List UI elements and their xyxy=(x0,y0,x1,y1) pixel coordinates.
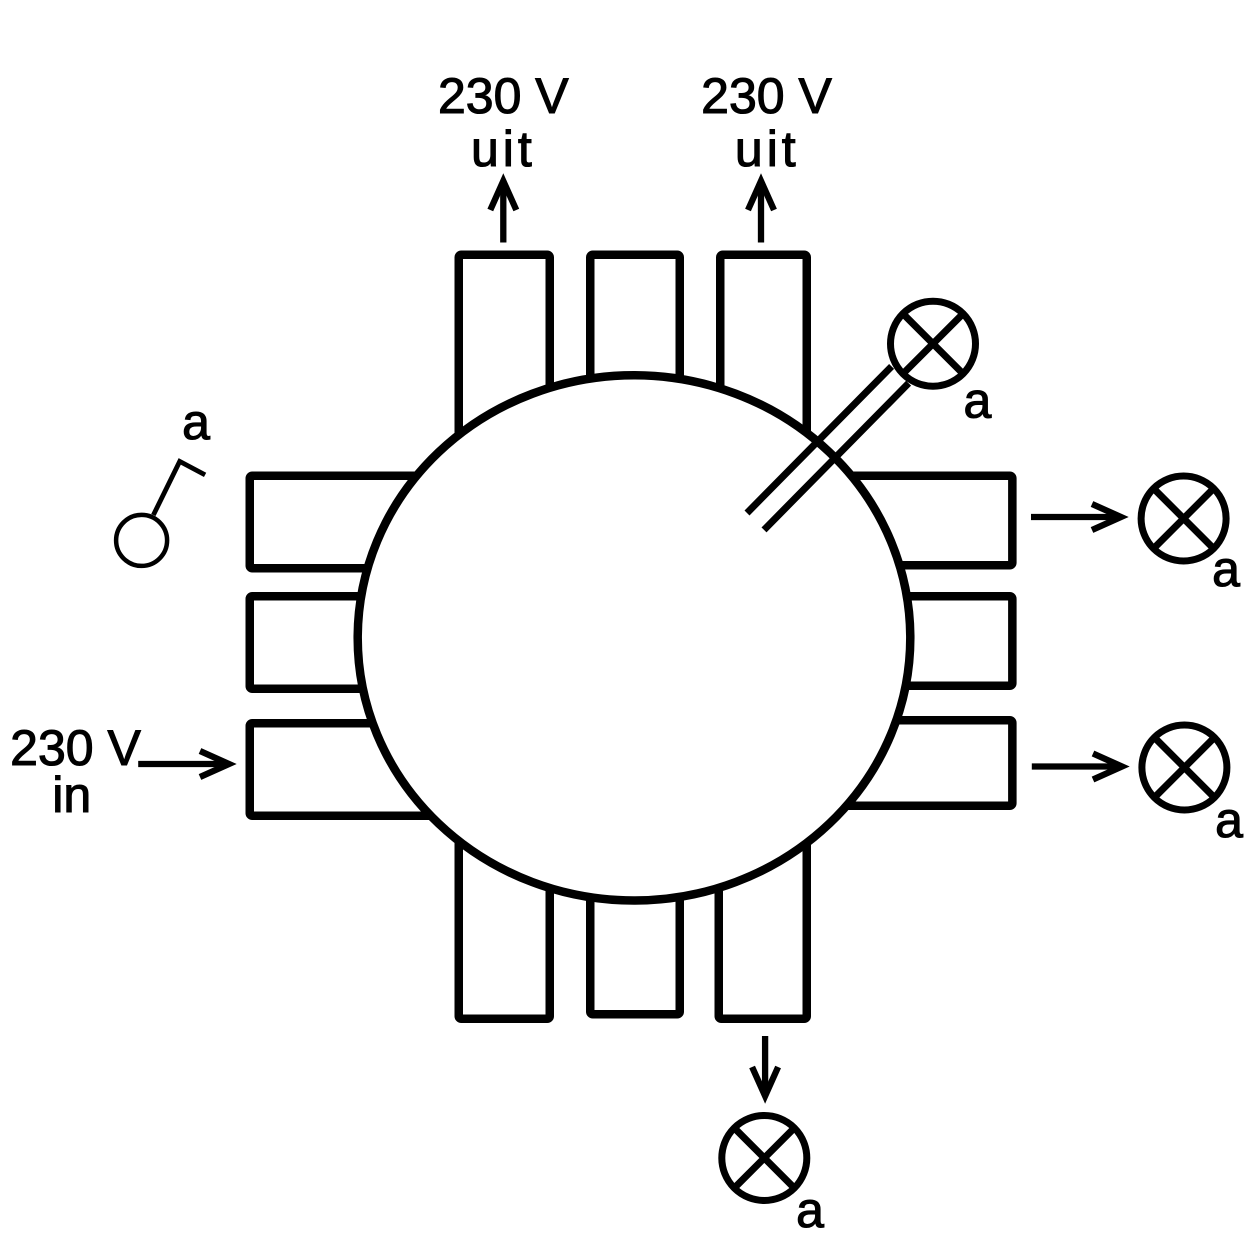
conduit stub right-bottom xyxy=(840,720,1012,806)
conduit stub left-middle xyxy=(250,596,435,689)
svg-text:in: in xyxy=(52,767,91,823)
svg-text:uit: uit xyxy=(471,121,536,177)
arrow 230V in (right) xyxy=(138,751,229,777)
arrow 230V uit right (up) xyxy=(748,181,774,243)
svg-text:a: a xyxy=(1215,792,1243,848)
lamp a bottom xyxy=(722,1116,807,1201)
conduit stub left-bottom xyxy=(250,723,435,816)
svg-text:230 V: 230 V xyxy=(701,68,832,124)
conduit stub right-middle xyxy=(840,596,1012,686)
switch a symbol xyxy=(116,461,205,566)
svg-text:a: a xyxy=(1212,541,1240,597)
wire pair to lamp a (diagonal double line) xyxy=(747,366,909,530)
svg-text:230 V: 230 V xyxy=(438,68,569,124)
conduit stub right-top xyxy=(840,476,1012,566)
lamp a right-top xyxy=(1141,476,1226,561)
conduit stub top-left xyxy=(459,255,550,455)
conduit stub left-top xyxy=(250,476,435,569)
lamp a right-bottom xyxy=(1142,725,1227,810)
arrow to bottom lamp (down) xyxy=(752,1036,778,1096)
arrow 230V uit left (up) xyxy=(490,181,516,243)
conduit stub top-middle xyxy=(590,255,680,455)
conduit stub bottom-middle xyxy=(590,820,680,1014)
conduit stub bottom-left xyxy=(459,820,550,1019)
arrow to right-top lamp xyxy=(1031,504,1121,530)
conduit stub bottom-right xyxy=(719,820,807,1019)
svg-text:a: a xyxy=(796,1182,824,1238)
svg-text:uit: uit xyxy=(735,121,800,177)
junction box circle xyxy=(358,375,911,900)
arrow to right-bottom lamp xyxy=(1032,754,1122,780)
lamp a top-right xyxy=(891,301,976,386)
conduit stub top-right xyxy=(720,255,807,455)
svg-text:a: a xyxy=(182,394,210,450)
svg-text:a: a xyxy=(963,373,991,429)
